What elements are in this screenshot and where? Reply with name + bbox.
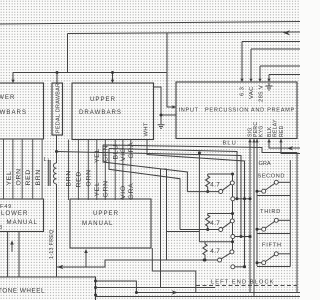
svg-text:LEFT END BLOCK: LEFT END BLOCK bbox=[211, 280, 275, 286]
svg-text:SECOND: SECOND bbox=[258, 174, 286, 180]
svg-text:LOWER: LOWER bbox=[0, 94, 15, 101]
svg-text:THIRD: THIRD bbox=[260, 209, 281, 215]
svg-text:GRN: GRN bbox=[103, 145, 110, 162]
svg-text:285 V: 285 V bbox=[259, 85, 265, 102]
svg-text:DRAWBARS: DRAWBARS bbox=[0, 109, 27, 116]
svg-text:FIFTH: FIFTH bbox=[262, 243, 282, 249]
svg-text:4.7: 4.7 bbox=[210, 182, 220, 189]
svg-text:UPPER: UPPER bbox=[90, 96, 116, 103]
svg-text:BRN: BRN bbox=[35, 169, 42, 185]
svg-text:VAC: VAC bbox=[249, 86, 255, 99]
svg-text:RED: RED bbox=[25, 169, 32, 185]
svg-text:GRA: GRA bbox=[128, 183, 135, 200]
svg-text:1-13 FREQ: 1-13 FREQ bbox=[49, 229, 55, 259]
svg-text:4.7: 4.7 bbox=[210, 248, 220, 255]
svg-text:RELAY: RELAY bbox=[273, 119, 279, 137]
svg-text:BRN: BRN bbox=[66, 170, 73, 186]
svg-text:MANUAL: MANUAL bbox=[82, 220, 113, 227]
svg-text:INPUT: INPUT bbox=[179, 108, 199, 114]
svg-text:6.3: 6.3 bbox=[240, 87, 246, 96]
svg-text:3: 3 bbox=[0, 225, 3, 231]
svg-text:LOWER: LOWER bbox=[1, 210, 28, 217]
svg-text:YEL: YEL bbox=[6, 171, 13, 186]
svg-text:GRA: GRA bbox=[259, 161, 271, 167]
svg-text:TONE WHEEL: TONE WHEEL bbox=[0, 288, 45, 295]
svg-text:ORN: ORN bbox=[16, 168, 23, 185]
svg-text:ORN: ORN bbox=[86, 169, 93, 186]
svg-text:PEDAL DRAWBAR: PEDAL DRAWBAR bbox=[56, 83, 62, 133]
svg-text:KYG: KYG bbox=[259, 125, 265, 137]
svg-text:DRAWBARS: DRAWBARS bbox=[79, 109, 122, 116]
svg-text:VIO: VIO bbox=[120, 185, 127, 199]
svg-text:4.7: 4.7 bbox=[210, 220, 220, 227]
svg-text:PERCUSSION AND PREAMP: PERCUSSION AND PREAMP bbox=[205, 108, 295, 114]
svg-text:MANUAL: MANUAL bbox=[7, 219, 38, 226]
svg-text:RED: RED bbox=[76, 171, 83, 187]
svg-text:GRA: GRA bbox=[128, 142, 135, 159]
svg-text:GRN: GRN bbox=[103, 180, 110, 197]
svg-text:YEL: YEL bbox=[94, 148, 101, 163]
svg-text:WHT: WHT bbox=[144, 122, 150, 136]
svg-text:UPPER: UPPER bbox=[93, 210, 119, 217]
svg-text:RED: RED bbox=[279, 125, 285, 137]
svg-text:YEL: YEL bbox=[94, 182, 101, 197]
svg-text:BLU: BLU bbox=[112, 144, 119, 159]
svg-text:BLU: BLU bbox=[223, 141, 237, 147]
